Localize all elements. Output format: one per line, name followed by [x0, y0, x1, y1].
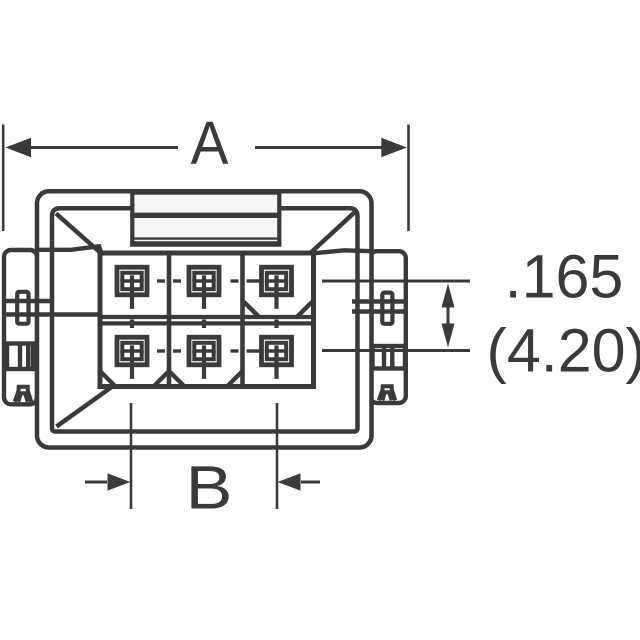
right ear cross bar upper [352, 299, 406, 304]
frame chamfer diagonal top-left [56, 214, 99, 252]
dimension A extension line right [407, 125, 410, 232]
right ear grate [373, 346, 406, 369]
left mounting ear outline [4, 250, 37, 404]
svg-text:B: B [186, 453, 233, 522]
right ear top shoulder line [312, 250, 373, 253]
right ear keystone detail [379, 386, 395, 400]
connector body outline [37, 191, 372, 447]
pin contact row1 col2 [189, 267, 219, 309]
row2 centerline dashes [157, 349, 260, 352]
pin contact row2 col1 [117, 320, 147, 379]
cavity chamfer row1 col3 bottom-right [297, 302, 313, 317]
cavity row divider lower line [100, 321, 314, 325]
cavity chamfer row2 col1 bottom-right [154, 372, 169, 387]
polarization tab [130, 193, 281, 244]
row1 centerline extension to dimension [322, 280, 470, 283]
right ear slot ring [382, 293, 392, 324]
row2 centerline extension to dimension [322, 349, 470, 352]
pin contact row1 col3 [262, 267, 292, 309]
svg-text:.165: .165 [505, 243, 624, 311]
pin contact row1 col1 [117, 267, 147, 309]
left ear keystone detail [15, 387, 31, 402]
left ear top shoulder line [37, 246, 101, 252]
pin contact row2 col3 [262, 320, 292, 379]
cavity chamfer row2 col1 bottom-left [101, 372, 116, 387]
cavity column divider 1 [167, 253, 172, 387]
right ear cross bar lower [352, 309, 406, 314]
cavity row divider upper line [100, 315, 314, 319]
right mounting ear outline [370, 251, 406, 403]
left ear grate [7, 344, 33, 370]
left ear slot ring [17, 292, 28, 324]
dimension B extension line left [130, 403, 133, 509]
cavity chamfer row1 col3 bottom-left [244, 302, 260, 317]
svg-text:(4.20): (4.20) [487, 317, 640, 385]
dimension B right arrow [278, 473, 321, 490]
dimension A left arrow [6, 138, 179, 157]
dimension A right arrow [255, 138, 407, 157]
cavity chamfer row2 col2 bottom-left [170, 372, 185, 387]
left ear cross bar lower [2, 312, 99, 317]
cavity column divider 2 [240, 253, 245, 387]
cavity chamfer row2 col2 bottom-right [227, 372, 242, 387]
pitch dimension vertical arrows [442, 284, 455, 348]
frame chamfer diagonal bottom-left [57, 385, 115, 426]
dimension B extension line right [276, 403, 279, 509]
inner shroud frame [52, 208, 358, 431]
dimension A extension line left [2, 125, 5, 232]
svg-text:A: A [191, 110, 230, 177]
pin contact row2 col2 [189, 320, 219, 379]
row1 centerline dashes [157, 279, 260, 282]
left ear cross bar upper [2, 299, 52, 304]
frame chamfer diagonal top-right [312, 212, 356, 253]
cavity block outline [100, 253, 314, 387]
dimension B left arrow [85, 473, 131, 490]
